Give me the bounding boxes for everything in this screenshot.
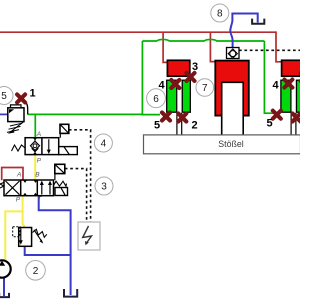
svg-text:5: 5 (267, 118, 273, 130)
wire: red pressure line top (0, 31, 276, 33)
circle 6 (147, 89, 166, 108)
wire: green drop to valve 4 port A (34, 114, 36, 137)
wire: red drop to middle cylinder cap (210, 32, 215, 61)
relief valve V2 adjust arrow (34, 230, 43, 244)
relief valve V1 body (8, 100, 28, 122)
svg-text:P: P (37, 158, 42, 165)
proximity sensor on C2 (227, 48, 240, 59)
tank symbol below pump (0, 293, 9, 297)
wire: green horizontal top (142, 39, 264, 41)
wire: green horizontal from relief valve 1 to junction (28, 113, 143, 115)
wire: yellow upper valve P to lower valve B (34, 155, 36, 180)
cylinder C1 cap (167, 60, 189, 76)
valve U4 check valve cell (30, 138, 39, 155)
circle 4 (94, 134, 112, 152)
marker X4 on C1 (171, 80, 179, 88)
circle 7 (196, 79, 214, 97)
tank symbol top right (252, 19, 264, 24)
cylinder C1 left leg (167, 80, 177, 112)
relief valve V2 pilot dashed box (13, 227, 20, 237)
svg-text:4: 4 (101, 139, 107, 150)
svg-text:1: 1 (30, 88, 36, 100)
marker X3 on C3 (clipped) (301, 73, 309, 81)
svg-text:B: B (35, 171, 40, 178)
circle 5 (0, 87, 13, 105)
relief valve V2 spring (33, 229, 47, 237)
wire: green left vertical to cylinder 1 port 5 (142, 41, 160, 115)
relief valve V1 spring (7, 122, 24, 134)
wire: blue into relief valve 1 from left (0, 113, 8, 115)
valve U4 solenoid right (59, 147, 78, 155)
svg-text:A: A (36, 131, 41, 138)
circle 2 (26, 261, 46, 281)
valve U3 solenoid connector box (55, 164, 65, 180)
cylinder C3 left leg (281, 80, 291, 112)
circle 3 (95, 177, 113, 195)
cylinder C3 cap (282, 60, 304, 76)
valve U4 arrow cell (47, 139, 51, 154)
valve U3 parallel arrows cell (40, 181, 52, 195)
valve U4 solenoid connector box (60, 124, 69, 137)
wire: dashed electrical from proximity sensor (239, 49, 300, 51)
marker X4 on C3 (284, 80, 292, 88)
wire: yellow from valve 3 port P down with branch to pump (5, 196, 22, 260)
marker X1 (17, 94, 25, 102)
valve U3 solenoid right (55, 188, 68, 196)
wire: yellow branch into relief valve 2 (23, 211, 25, 228)
wire: dashed electrical from valve 4 solenoid (69, 130, 91, 222)
marker X2 on C3 (293, 114, 301, 122)
svg-text:2: 2 (192, 120, 198, 132)
wire: dashed electrical from valve 3 solenoid (65, 169, 87, 222)
circle 8 (211, 4, 229, 22)
wire: red drop to right cylinder cap (276, 31, 281, 61)
svg-text:5: 5 (154, 120, 160, 132)
svg-text:8: 8 (217, 9, 223, 20)
valve U3 left actuator fragment (0, 183, 4, 189)
marker X3 on C1 (187, 73, 195, 81)
svg-text:2: 2 (33, 266, 39, 277)
svg-text:P: P (16, 196, 21, 203)
svg-text:3: 3 (192, 61, 198, 73)
svg-text:Stößel: Stößel (218, 139, 243, 149)
svg-text:6: 6 (153, 94, 159, 105)
wire: blue pump to tank (3, 278, 5, 297)
valve U3 spring right (54, 181, 67, 186)
cylinder C2 piston rod (222, 82, 244, 135)
pump P1 (0, 260, 11, 277)
svg-text:3: 3 (101, 182, 107, 193)
relief valve V2 body (19, 228, 32, 247)
wire: blue from proximity sensor up to tank 8 (230, 14, 257, 48)
cylinder C3 right leg (296, 80, 304, 112)
cylinder C1 right leg (182, 80, 190, 112)
wire: blue from relief valve 2 to tank line (25, 246, 71, 255)
wire: green right vertical to right cylinder port 5 (264, 41, 273, 113)
valve U3 center cell port nubs (23, 180, 37, 195)
svg-text:4: 4 (273, 80, 280, 92)
wire: red feed to valve 3 port A (2, 168, 23, 181)
svg-text:7: 7 (202, 83, 208, 94)
valve U3 body (4, 180, 54, 196)
tank symbol bottom (64, 289, 77, 297)
valve U3 crossed cell (6, 181, 20, 195)
wire: blue from valve 3 port T to tank (39, 196, 71, 295)
cylinder C3 piston rod (291, 113, 296, 136)
marker X2 on C1 (178, 114, 186, 122)
valve U4 body (25, 138, 59, 155)
cylinder C1 piston rod (177, 113, 182, 136)
Stoessel bar (144, 135, 301, 154)
svg-text:5: 5 (1, 91, 7, 102)
wire: red drop to cylinder 1 cap (163, 32, 167, 62)
electrical control box (78, 222, 100, 250)
cylinder C2 barrel (215, 61, 249, 116)
marker X5 on C3 (273, 111, 281, 119)
marker X5 on C1 (162, 113, 170, 121)
valve U4 spring left (12, 145, 26, 151)
svg-text:A: A (16, 172, 21, 179)
